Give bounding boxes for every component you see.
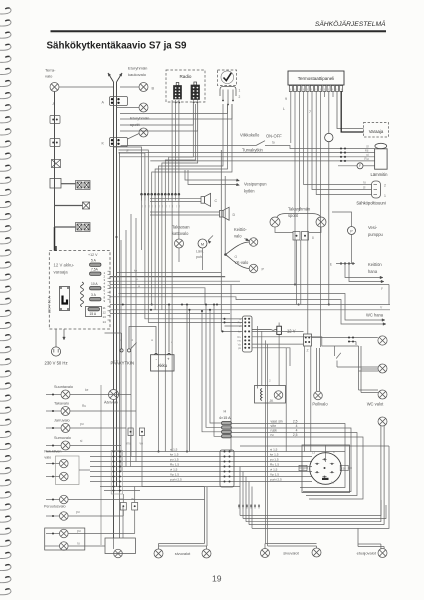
svg-text:2: 2 bbox=[239, 95, 241, 99]
battery bus pair bbox=[186, 305, 188, 452]
svg-text:Vp 1,5: Vp 1,5 bbox=[170, 473, 179, 477]
svg-text:Radio: Radio bbox=[179, 74, 191, 79]
Vesipumpun kytkin wires bbox=[185, 170, 237, 180]
svg-text:valo: valo bbox=[45, 74, 53, 79]
wire mid h1 bbox=[117, 272, 222, 274]
svg-text:WC hana: WC hana bbox=[366, 313, 384, 318]
JK lamp bbox=[274, 391, 283, 400]
bottom long lines bbox=[240, 500, 381, 516]
svg-text:O: O bbox=[235, 255, 238, 259]
svg-text:2,5: 2,5 bbox=[293, 433, 298, 437]
svg-text:F: F bbox=[381, 287, 383, 291]
svg-text:PÄÄKYTKIN: PÄÄKYTKIN bbox=[111, 361, 135, 366]
svg-text:Ru 1,5: Ru 1,5 bbox=[270, 463, 279, 467]
svg-text:Sumuvalo: Sumuvalo bbox=[54, 436, 71, 440]
main switch bbox=[105, 332, 122, 334]
svg-text:WC valot: WC valot bbox=[367, 402, 384, 407]
svg-text:si: si bbox=[138, 284, 140, 288]
upper link wires bbox=[120, 113, 228, 115]
PSU transformer bbox=[60, 287, 70, 311]
wire staircase into junction strip bbox=[114, 147, 142, 194]
svg-text:vo: vo bbox=[140, 442, 144, 446]
svg-text:YK-valo: YK-valo bbox=[234, 260, 249, 265]
switch unit dashed box bbox=[218, 70, 237, 86]
svg-text:19: 19 bbox=[212, 574, 222, 584]
PSU coil bbox=[81, 282, 84, 307]
svg-text:valo: valo bbox=[234, 234, 242, 239]
wire mid h3 bbox=[110, 280, 240, 282]
mains plug bbox=[55, 329, 57, 347]
svg-text:+12 V: +12 V bbox=[88, 253, 98, 257]
svg-text:4: 4 bbox=[296, 424, 298, 428]
wc lamp2 wires bbox=[359, 389, 379, 391]
wire to Varaaja 2 bbox=[341, 91, 363, 132]
battery Akku bbox=[151, 355, 174, 371]
lamp WC valot 2 bbox=[378, 390, 387, 399]
lamp rek 2 bbox=[46, 476, 59, 478]
lamp Peruutusvalo bbox=[46, 499, 60, 501]
wire to lamp B bbox=[120, 86, 139, 88]
lamp extra 2 bbox=[46, 533, 60, 535]
lamp with stem bbox=[378, 417, 387, 426]
junction Y with arrows bbox=[108, 73, 114, 82]
wire branch 3 bbox=[55, 226, 76, 228]
lamp Terra-valo bbox=[50, 83, 59, 92]
lamp sivuvalot 1a bbox=[154, 549, 163, 558]
lamp Peilivalo bbox=[314, 391, 323, 400]
bus vertical 3 bbox=[119, 152, 121, 538]
wire mid h2 thick bbox=[110, 276, 225, 278]
keittiön hana connector bbox=[340, 262, 342, 264]
svg-text:F: F bbox=[359, 164, 361, 168]
svg-text:13: 13 bbox=[103, 315, 107, 319]
svg-text:pu 1,5: pu 1,5 bbox=[270, 458, 279, 462]
svg-text:valo: valo bbox=[44, 456, 51, 460]
svg-text:sivuvalot: sivuvalot bbox=[283, 551, 299, 556]
routing box left edge bbox=[230, 330, 232, 452]
svg-text:ta: ta bbox=[272, 141, 275, 145]
pentry lamp feed bbox=[312, 337, 378, 339]
fuse feeds bbox=[202, 311, 222, 432]
terminal row bbox=[289, 86, 292, 92]
svg-text:Turvakytkin: Turvakytkin bbox=[242, 148, 263, 153]
svg-text:si 1,5: si 1,5 bbox=[170, 448, 178, 452]
strip right links bbox=[252, 330, 304, 332]
wire long feed si bbox=[119, 152, 375, 154]
bundle connector bbox=[220, 450, 234, 487]
mu vo connectors bbox=[128, 428, 133, 436]
svg-text:Ru: Ru bbox=[82, 404, 86, 408]
svg-text:pu 1,5: pu 1,5 bbox=[170, 458, 179, 462]
strip left links bbox=[225, 318, 243, 320]
svg-text:10 A: 10 A bbox=[91, 282, 98, 286]
lamp WC valot 1 bbox=[378, 364, 387, 373]
svg-text:Vp 1,5: Vp 1,5 bbox=[270, 473, 279, 477]
svg-text:2: 2 bbox=[384, 184, 386, 188]
wc feed pair bbox=[358, 346, 360, 390]
svg-text:Takaryhmän: Takaryhmän bbox=[288, 207, 311, 212]
Lämmitin boiler bbox=[375, 149, 388, 169]
junction strip dots bbox=[140, 193, 143, 196]
takaryhmän wiring bbox=[277, 214, 300, 218]
svg-text:kytkin: kytkin bbox=[244, 189, 255, 194]
trailer connector details bbox=[325, 445, 327, 462]
svg-text:L: L bbox=[283, 107, 285, 111]
trailer connector housing bbox=[302, 445, 350, 493]
wire LM3 to WC hana arrow bbox=[110, 297, 384, 324]
svg-text:1: 1 bbox=[384, 194, 386, 198]
svg-text:15 A: 15 A bbox=[90, 312, 97, 316]
svg-text:58: 58 bbox=[343, 466, 347, 470]
wire LM5 bbox=[110, 309, 390, 311]
svg-text:ON-OFF: ON-OFF bbox=[266, 134, 282, 139]
connector K bbox=[110, 138, 128, 147]
svg-text:vi 1,5: vi 1,5 bbox=[170, 468, 178, 472]
svg-text:230 V 50 A: 230 V 50 A bbox=[48, 296, 52, 313]
svg-text:H: H bbox=[224, 410, 227, 414]
temperature sensor bbox=[328, 91, 330, 134]
fuse box single bbox=[83, 202, 90, 209]
trailer connector label box bbox=[299, 465, 307, 470]
svg-text:vo: vo bbox=[120, 497, 124, 501]
wire left column vertical bbox=[54, 92, 56, 228]
svg-text:pu: pu bbox=[76, 510, 80, 514]
gauge wire 2 bbox=[232, 428, 352, 492]
svg-text:ke 1,5: ke 1,5 bbox=[170, 453, 179, 457]
wire long feed 2 bbox=[120, 156, 375, 158]
Vesipumppu circle bbox=[348, 227, 356, 235]
gauge wire 1 bbox=[232, 424, 346, 488]
radio connector block 2 bbox=[191, 85, 200, 100]
bottom left lamp 2 bbox=[45, 545, 60, 547]
svg-text:Peruutusvalo: Peruutusvalo bbox=[44, 505, 66, 509]
svg-text:11: 11 bbox=[103, 306, 106, 310]
connector terminal block 1 bbox=[50, 116, 60, 124]
small component bbox=[52, 160, 61, 168]
harness connector block bbox=[111, 451, 122, 495]
left lamp column wires bbox=[70, 394, 131, 396]
svg-text:3 A: 3 A bbox=[91, 293, 97, 297]
svg-text:13: 13 bbox=[312, 451, 316, 455]
strip drop wires bbox=[256, 326, 258, 386]
battery feed right bbox=[168, 305, 170, 353]
Varaaja dashed box bbox=[364, 123, 389, 138]
svg-text:vaal. sin: vaal. sin bbox=[271, 419, 283, 423]
svg-text:Äärivalo: Äärivalo bbox=[104, 401, 118, 405]
svg-text:Takaosan: Takaosan bbox=[172, 225, 190, 230]
takaryhmän connector bbox=[293, 232, 300, 241]
wire to spot lamp 1 bbox=[117, 107, 140, 109]
takaryhmän connector drops bbox=[296, 240, 298, 305]
lamp bottom mid bbox=[114, 549, 123, 558]
svg-text:+: + bbox=[167, 357, 170, 362]
svg-text:1: 1 bbox=[239, 89, 241, 93]
spiral binding bbox=[0, 8, 11, 595]
svg-text:10: 10 bbox=[331, 481, 335, 485]
svg-text:5 A: 5 A bbox=[91, 258, 97, 262]
svg-text:spotit: spotit bbox=[288, 213, 299, 218]
svg-text:Akku: Akku bbox=[158, 363, 168, 368]
connector A bbox=[110, 97, 128, 106]
wire to spot lamp 2 bbox=[128, 134, 140, 140]
page left margin area bbox=[0, 0, 30, 600]
sivuvalot 1 bracket bbox=[159, 543, 205, 545]
svg-text:9: 9 bbox=[285, 97, 287, 101]
keittiön hana wires bbox=[345, 264, 381, 278]
svg-text:ke: ke bbox=[85, 388, 89, 392]
svg-text:Suuntavalo: Suuntavalo bbox=[54, 385, 73, 389]
svg-text:7: 7 bbox=[309, 110, 311, 114]
svg-text:Varaaja: Varaaja bbox=[369, 129, 384, 134]
svg-text:14: 14 bbox=[103, 320, 107, 324]
svg-text:Terra-: Terra- bbox=[45, 68, 56, 73]
gauge wire 3 bbox=[232, 433, 358, 496]
svg-text:Vesipumpun: Vesipumpun bbox=[244, 182, 267, 187]
svg-text:Ru: Ru bbox=[364, 157, 368, 161]
Radio dashed box bbox=[166, 70, 205, 102]
lamp sivuvalot 2a bbox=[261, 549, 270, 558]
svg-text:Termostaattipaneli: Termostaattipaneli bbox=[298, 76, 335, 81]
lamp column rail bbox=[100, 385, 102, 545]
trailer connector socket bbox=[310, 453, 342, 485]
svg-text:Rek.kilven: Rek.kilven bbox=[44, 450, 61, 454]
radio connector block 1 bbox=[174, 86, 182, 100]
svg-text:Läm.: Läm. bbox=[196, 250, 204, 254]
junction box bbox=[50, 179, 61, 189]
etuajovalot wires bbox=[358, 543, 381, 545]
svg-text:8: 8 bbox=[312, 236, 314, 240]
svg-text:rusk: rusk bbox=[271, 428, 278, 432]
main bus vertical 2 bbox=[116, 82, 118, 487]
svg-text:hana: hana bbox=[368, 269, 378, 274]
svg-text:4: 4 bbox=[296, 428, 298, 432]
svg-text:SÄHKÖJÄRJESTELMÄ: SÄHKÖJÄRJESTELMÄ bbox=[315, 20, 386, 28]
svg-text:ru: ru bbox=[132, 497, 135, 501]
svg-text:Sähkökytkentäkaavio S7 ja S9: Sähkökytkentäkaavio S7 ja S9 bbox=[47, 41, 188, 52]
svg-text:kaukovalo: kaukovalo bbox=[128, 72, 147, 77]
svg-text:vihr: vihr bbox=[271, 424, 277, 428]
rek pair box bbox=[56, 456, 80, 485]
svg-text:sivuvalot: sivuvalot bbox=[175, 551, 191, 556]
svg-text:ke 1,5: ke 1,5 bbox=[270, 453, 279, 457]
svg-text:si: si bbox=[126, 149, 129, 153]
lamp sivuvalot 2b bbox=[312, 548, 321, 557]
turvakytkin switch wire bbox=[121, 145, 257, 147]
svg-text:Eturyhmän: Eturyhmän bbox=[130, 116, 149, 121]
wire lamp A to bus bbox=[59, 86, 114, 88]
lamp Takaryhmän 2 bbox=[316, 217, 326, 227]
svg-text:230 V 50 Hz: 230 V 50 Hz bbox=[45, 361, 68, 366]
svg-text:ru: ru bbox=[77, 542, 80, 546]
JK unit box bbox=[255, 386, 286, 404]
svg-text:etuajovalot: etuajovalot bbox=[357, 551, 377, 556]
fuse pair box 2 bbox=[76, 223, 91, 232]
nest top lines bbox=[240, 445, 389, 447]
svg-text:Keittiö-: Keittiö- bbox=[234, 227, 247, 232]
svg-text:12: 12 bbox=[301, 466, 305, 470]
boiler feed junction dots bbox=[340, 147, 342, 149]
wire mid h5 bbox=[110, 312, 230, 314]
svg-text:12 V: 12 V bbox=[287, 329, 296, 334]
lamp Keittiövalo bbox=[249, 238, 258, 247]
svg-text:Ru 1,5: Ru 1,5 bbox=[170, 463, 179, 467]
antenna arrow bbox=[63, 329, 65, 337]
lamp B Eturyhmän kaukovalo bbox=[139, 83, 148, 92]
pin row bbox=[238, 505, 240, 507]
svg-text:si: si bbox=[151, 338, 154, 342]
lamp extra 1 bbox=[46, 515, 60, 517]
svg-text:12 V akku-: 12 V akku- bbox=[54, 263, 75, 268]
sivuvalot 1 feed bbox=[204, 487, 206, 544]
header rule bbox=[51, 30, 387, 32]
wire to Varaaja 1 bbox=[337, 91, 364, 129]
wire branch 2 bbox=[55, 205, 83, 207]
svg-text:pumppu: pumppu bbox=[368, 232, 383, 237]
svg-text:Z: Z bbox=[306, 349, 308, 353]
switch unit plug bbox=[220, 87, 236, 97]
hub wires bbox=[224, 253, 227, 256]
sivuvalot 2 bracket bbox=[265, 543, 316, 545]
svg-text:Takavalo: Takavalo bbox=[54, 402, 69, 406]
bundle crossing dots bbox=[113, 451, 115, 453]
motor M bbox=[198, 239, 207, 248]
speaker D bbox=[150, 211, 220, 213]
svg-text:Sähköpolttouuni: Sähköpolttouuni bbox=[356, 201, 385, 206]
svg-text:puh.: puh. bbox=[196, 255, 203, 259]
bottom left box bbox=[45, 528, 85, 550]
svg-text:M: M bbox=[201, 242, 204, 246]
JK coil bbox=[261, 389, 263, 401]
svg-text:varaaja: varaaja bbox=[54, 270, 69, 275]
lamp Eturyhmän spotit 2 bbox=[139, 128, 148, 137]
svg-text:Peilivalo: Peilivalo bbox=[312, 402, 328, 407]
gauge wire 4 bbox=[232, 437, 364, 499]
connector Z bbox=[304, 334, 312, 346]
wire branch 1 bbox=[61, 183, 76, 185]
nest left risers bbox=[239, 467, 241, 516]
lamp Äärivalo bbox=[109, 390, 119, 400]
lamp Eturyhmän spotit 1 bbox=[139, 103, 148, 112]
speaker C bbox=[150, 197, 201, 199]
kitchen bus pair bbox=[220, 150, 222, 331]
lamp rek 1 bbox=[46, 463, 59, 465]
svg-text:7,5A: 7,5A bbox=[91, 267, 99, 271]
wire mid h4 bbox=[110, 288, 205, 305]
svg-text:pu/vi 2,5: pu/vi 2,5 bbox=[170, 478, 182, 482]
svg-text:spotit: spotit bbox=[130, 122, 140, 127]
svg-text:si 1,5: si 1,5 bbox=[270, 448, 278, 452]
lamp Takaosan kattovalo bbox=[175, 239, 184, 248]
wire bundle rows bbox=[46, 451, 345, 453]
svg-text:ru: ru bbox=[271, 433, 274, 437]
svg-text:Viikkokello: Viikkokello bbox=[240, 133, 260, 138]
stove connector bbox=[372, 181, 381, 198]
main bus vertical 1 bbox=[113, 82, 115, 390]
terminal strip bbox=[243, 316, 253, 352]
thermostat panel wires bbox=[290, 91, 292, 143]
wires to stove bbox=[304, 91, 372, 185]
svg-text:Jarruvalo: Jarruvalo bbox=[54, 419, 70, 423]
lamp etuajovalot bbox=[378, 549, 387, 558]
peilivalo feed bbox=[316, 348, 318, 391]
svg-text:vi 1,5: vi 1,5 bbox=[270, 468, 278, 472]
svg-text:ru: ru bbox=[363, 181, 366, 185]
lamp sivuvalot 1b bbox=[202, 549, 211, 558]
wire long feed 3 bbox=[150, 160, 374, 162]
12V fuse bbox=[252, 329, 277, 332]
svg-text:si: si bbox=[80, 439, 83, 443]
lamp Takaryhmän 1 bbox=[270, 217, 280, 227]
connector terminal block 2 bbox=[50, 139, 60, 147]
svg-text:C: C bbox=[215, 199, 218, 203]
wc lamp1 wires bbox=[359, 366, 379, 368]
svg-text:12: 12 bbox=[103, 311, 107, 315]
pump feed down bbox=[351, 235, 353, 264]
wire box top LM1 bbox=[110, 284, 389, 286]
svg-text:4×15 A: 4×15 A bbox=[219, 416, 231, 420]
wire LM4 bbox=[110, 304, 390, 306]
svg-text:pu: pu bbox=[77, 529, 81, 533]
bus junction dot bbox=[115, 236, 117, 238]
svg-text:pu: pu bbox=[80, 422, 84, 426]
lamp pentry bbox=[378, 336, 387, 345]
svg-text:Lämmitin: Lämmitin bbox=[371, 172, 389, 177]
svg-text:D: D bbox=[233, 213, 236, 217]
PSU 15A fuse bbox=[86, 307, 102, 317]
Termostaattipaneli box bbox=[288, 71, 344, 85]
PSU top stub bbox=[55, 246, 57, 251]
svg-text:Vesi-: Vesi- bbox=[368, 225, 378, 230]
svg-text:2,5: 2,5 bbox=[293, 419, 298, 423]
fuse F circle bbox=[338, 165, 357, 167]
svg-text:kattovalo: kattovalo bbox=[172, 231, 189, 236]
svg-text:Eturyhmän: Eturyhmän bbox=[128, 66, 147, 71]
bottom junction box bbox=[105, 538, 135, 554]
svg-text:pu/vi 2,5: pu/vi 2,5 bbox=[270, 478, 282, 482]
wire LM2 to WC hana arrow bbox=[119, 294, 384, 321]
svg-text:si: si bbox=[363, 186, 366, 190]
strip descender wires bbox=[141, 195, 143, 250]
PSU dashed box bbox=[49, 251, 110, 329]
svg-text:Keittiön: Keittiön bbox=[368, 262, 382, 267]
lamp YK-valo bbox=[249, 264, 258, 273]
fuse pair box 1 bbox=[76, 181, 91, 190]
